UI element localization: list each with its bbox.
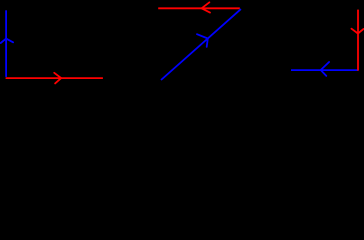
arrowhead: red down arrow on right vertical wire [352,29,364,34]
arrowhead: blue left arrow on right horizontal wire [321,62,329,76]
wire: left figure red horizontal segment [6,77,103,79]
wire: right figure red vertical segment [357,10,359,71]
wire: left figure blue vertical segment [5,10,7,77]
arrowhead: red left arrow on top wire [202,2,210,12]
wire: right figure blue horizontal segment [291,69,358,71]
arrowhead: red right arrow on left horizontal wire [54,73,61,84]
arrowhead: blue up arrow on left vertical wire [1,39,13,43]
wire: middle figure blue diagonal segment [161,9,241,80]
arrowhead: blue up-right arrow on diagonal wire [197,34,208,47]
wire: middle figure red horizontal top segment [158,7,240,9]
